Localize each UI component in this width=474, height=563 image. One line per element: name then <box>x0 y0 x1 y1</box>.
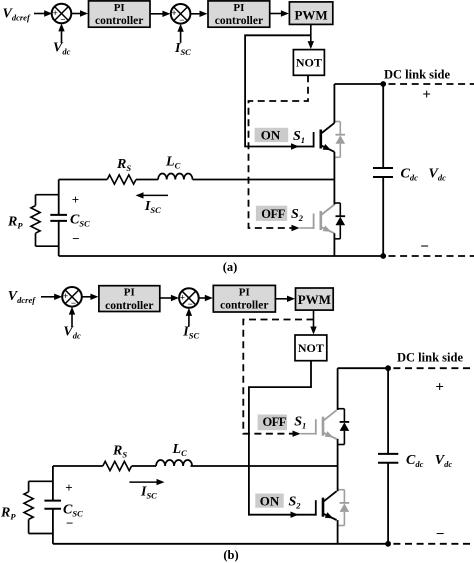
wire bridge rail middle b <box>337 439 339 492</box>
wire bridge rail bottom b <box>337 520 339 544</box>
svg-text:controller: controller <box>220 300 268 312</box>
svg-text:+: + <box>65 480 72 495</box>
diode D1b (black) <box>338 409 349 445</box>
svg-text:RS: RS <box>116 157 131 173</box>
node junction dot bottom b <box>385 541 391 547</box>
wire bottom rail b <box>53 543 388 545</box>
summing junction 1b <box>62 287 82 308</box>
summing junction 2a <box>171 4 191 25</box>
wire gray gate lead S2a <box>300 227 314 229</box>
wire dc+ top a <box>334 83 383 85</box>
wire Isc current arrow b (right) <box>129 481 158 483</box>
svg-text:+: + <box>180 292 185 302</box>
svg-text:PI: PI <box>114 2 125 14</box>
summing junction 1a <box>52 4 72 25</box>
wire PWM to S1 gate b (dashed) <box>243 320 313 434</box>
svg-text:+: + <box>172 8 177 18</box>
svg-text:Cdc: Cdc <box>401 166 419 182</box>
resistor RS b <box>103 461 132 470</box>
svg-text:PI: PI <box>124 287 135 299</box>
ON state label a <box>255 127 289 142</box>
PI controller U1b <box>99 286 160 312</box>
svg-text:ISC: ISC <box>174 41 191 57</box>
svg-text:Vdcref: Vdcref <box>3 6 31 22</box>
wire bridge rail top a <box>333 84 335 123</box>
wire left branch b <box>52 466 54 500</box>
node junction dot bottom a <box>380 253 386 259</box>
resistor RP b <box>24 481 53 533</box>
svg-text:RP: RP <box>0 506 16 522</box>
svg-text:−: − <box>188 299 193 309</box>
svg-text:OFF: OFF <box>262 415 286 429</box>
diode D2a (black) <box>334 203 345 239</box>
wire dashed dc- b <box>393 543 474 545</box>
svg-text:Vdcref: Vdcref <box>8 289 36 305</box>
svg-text:−: − <box>66 515 73 530</box>
svg-text:S1: S1 <box>293 129 305 145</box>
ON state label b <box>255 493 283 508</box>
PI controller U2a <box>208 1 270 27</box>
transistor S2b (IGBT, on/black) <box>316 491 337 520</box>
resistor RS a <box>107 175 136 184</box>
svg-text:−: − <box>71 298 76 308</box>
wire gray gate lead S1b <box>301 433 316 435</box>
svg-text:+: + <box>72 192 79 207</box>
wire bottom rail a <box>59 255 384 257</box>
svg-text:controller: controller <box>95 15 143 27</box>
wire dc+ top b <box>338 367 389 369</box>
svg-text:CSC: CSC <box>70 213 90 229</box>
wire PI2b to PWM b <box>275 298 287 300</box>
wire dashed dc+ a <box>389 83 474 85</box>
svg-text:ON: ON <box>260 493 280 508</box>
wire NOT to S2 gate a (dashed) <box>249 75 309 228</box>
svg-text:OFF: OFF <box>261 207 285 221</box>
node junction dot top a <box>380 81 386 87</box>
svg-text:Vdc: Vdc <box>53 41 71 57</box>
svg-text:Cdc: Cdc <box>406 453 424 469</box>
svg-text:S1: S1 <box>294 414 306 430</box>
svg-text:−: − <box>179 15 184 25</box>
transistor S1b (IGBT, off/gray) <box>316 410 337 439</box>
NOT gate block b <box>295 335 327 361</box>
PI controller U1a <box>89 1 151 27</box>
wire Vdcref to summer 1b <box>41 296 55 298</box>
svg-text:LC: LC <box>172 442 188 458</box>
wire PI1b to summer 2b <box>160 297 172 299</box>
wire PWM to NOT b <box>313 310 315 328</box>
capacitor Cdc b <box>378 368 398 544</box>
wire PWM to NOT a <box>310 24 312 42</box>
svg-text:−: − <box>420 239 429 255</box>
capacitor CSC b <box>44 501 61 509</box>
NOT gate block a <box>293 50 324 76</box>
summing junction 2b <box>179 288 199 309</box>
svg-text:RP: RP <box>7 215 23 231</box>
svg-text:S2: S2 <box>291 207 304 223</box>
svg-text:ON: ON <box>261 127 281 142</box>
capacitor CSC a <box>50 215 67 221</box>
svg-text:(a): (a) <box>223 260 238 274</box>
wire bridge rail bottom a <box>333 233 335 256</box>
wire summer1b to PI1b <box>82 296 92 298</box>
OFF state label b <box>258 415 287 431</box>
svg-text:ISC: ISC <box>140 485 157 501</box>
svg-text:+: + <box>422 87 431 103</box>
wire left branch a <box>58 180 60 215</box>
inductor LC a <box>158 174 192 180</box>
wire dashed dc+ b <box>393 367 474 369</box>
wire PWM to S1 gate a (solid) <box>245 35 314 146</box>
svg-text:PI: PI <box>233 2 244 14</box>
svg-text:controller: controller <box>105 300 153 312</box>
transistor S1a (IGBT, on/black) <box>314 123 335 152</box>
svg-text:ISC: ISC <box>144 199 161 215</box>
wire NOT to S2 gate b (solid) <box>249 361 316 515</box>
svg-text:DC link side: DC link side <box>397 350 463 364</box>
wire Vdc feedback arrow 1b <box>71 313 73 326</box>
svg-text:PWM: PWM <box>298 292 331 307</box>
svg-text:−: − <box>436 527 445 543</box>
transistor S2a (IGBT, off/gray) <box>314 205 335 234</box>
wire Vdcref to summer 1a <box>34 13 46 15</box>
PWM block a <box>289 2 332 25</box>
svg-text:S2: S2 <box>289 494 302 510</box>
svg-text:−: − <box>60 15 65 25</box>
wire Isc current arrow a (left) <box>141 194 168 196</box>
wire bridge rail middle a <box>333 152 335 205</box>
svg-text:Vdc: Vdc <box>435 453 453 469</box>
wire summer2a to PI2a <box>190 13 200 15</box>
resistor RP a <box>31 195 59 247</box>
svg-text:(b): (b) <box>223 548 238 562</box>
PI controller U2b <box>213 285 275 312</box>
svg-text:PI: PI <box>239 286 250 298</box>
PWM block b <box>296 288 334 310</box>
diode D2b (gray) <box>338 490 349 526</box>
capacitor Cdc a <box>373 84 393 256</box>
wire bridge rail top b <box>337 368 339 410</box>
wire Isc feedback arrow b <box>188 315 190 327</box>
inductor LC b <box>156 460 192 466</box>
svg-text:LC: LC <box>165 155 181 171</box>
wire PI2a to PWM a <box>270 13 281 15</box>
svg-text:controller: controller <box>215 15 263 27</box>
wire dashed dc- a <box>389 255 474 257</box>
svg-text:ISC: ISC <box>182 325 199 341</box>
diode D1a (gray) <box>334 122 345 158</box>
wire mid rail segments a <box>59 179 107 181</box>
wire summer1a to PI1a <box>71 13 81 15</box>
svg-text:RS: RS <box>112 444 127 460</box>
svg-text:DC link side: DC link side <box>384 68 450 82</box>
svg-text:+: + <box>435 379 444 395</box>
svg-text:NOT: NOT <box>298 341 324 355</box>
svg-text:+: + <box>63 291 68 301</box>
wire Isc feedback arrow a <box>180 30 182 42</box>
wire summer2b to PI2b <box>199 297 206 299</box>
svg-text:−: − <box>72 231 79 246</box>
svg-text:NOT: NOT <box>296 55 322 69</box>
svg-text:Vdc: Vdc <box>63 325 81 341</box>
node junction dot top b <box>385 365 391 371</box>
svg-text:Vdc: Vdc <box>429 166 447 182</box>
wire PI1a to summer 2a <box>150 13 163 15</box>
OFF state label a <box>256 206 287 221</box>
svg-text:+: + <box>53 8 58 18</box>
wire mid rail segments b <box>53 465 103 467</box>
wire Vdc feedback arrow 1a <box>61 30 63 43</box>
svg-text:PWM: PWM <box>294 8 327 23</box>
